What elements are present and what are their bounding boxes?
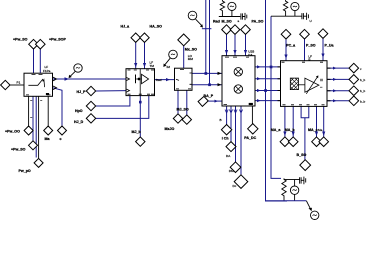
- port top B: [36, 39, 46, 49]
- port out Q: [349, 86, 359, 96]
- box1 corner mark: [46, 93, 49, 95]
- mixer1 circle with X: [234, 68, 242, 76]
- wire stem port LO to box3 top: [183, 46, 185, 68]
- port HJ_D: [86, 114, 95, 123]
- wire demod bottom pin1 to port MA_a: [284, 106, 286, 137]
- junction dot A: [264, 89, 267, 92]
- port D8 c: [58, 126, 67, 135]
- svg-text:b_b: b_b: [360, 89, 365, 93]
- demod connector line: [299, 84, 305, 86]
- svg-text:MxJO: MxJO: [165, 127, 175, 131]
- probe circle near filter out: [74, 64, 82, 72]
- wire LO vertical 1 from top: [205, 0, 207, 73]
- box1 filter LPF: [24, 73, 53, 96]
- wire demod bottom pin5 to port MA_c: [316, 106, 318, 137]
- svg-text:PC_a: PC_a: [286, 44, 296, 48]
- wire filter bottom pin4 down: [38, 96, 40, 158]
- svg-text:c: c: [60, 137, 62, 141]
- wire stem port HA_SO to amp top pin2: [144, 43, 146, 69]
- svg-text:B: B: [220, 118, 222, 122]
- junction dot LO2: [208, 83, 211, 86]
- wire filter out1 to amp in1: [53, 78, 127, 80]
- wire box3 to mixer box RF1: [192, 72, 222, 74]
- wire port HpO to amp bottom pin1: [96, 96, 130, 106]
- svg-text:+Pw_SO: +Pw_SO: [11, 148, 26, 152]
- amp internal vertical line: [139, 69, 141, 96]
- svg-text:b_b: b_b: [360, 78, 365, 82]
- pin number ticks below box1: [30, 100, 42, 117]
- box4 pin ticks: [224, 57, 250, 104]
- port D4: [24, 126, 33, 135]
- port MxJO: [173, 114, 182, 123]
- port MA_d: [319, 137, 329, 147]
- box3 pin ticks: [176, 70, 192, 89]
- resistor R1 (top-left): [220, 0, 224, 17]
- wire filter out2 down to port D8: [53, 88, 62, 126]
- probe arrow near filter out: [70, 71, 75, 76]
- demod right pin ticks: [320, 79, 323, 87]
- arrowhead on HA_SO stem: [143, 63, 146, 68]
- box2 pin ticks: [128, 70, 155, 94]
- svg-text:M_SO: M_SO: [222, 19, 232, 23]
- filter curve inside box1: [28, 79, 44, 87]
- arrow on out1 wire: [65, 77, 70, 80]
- port B_SO: [300, 160, 311, 171]
- wire box3 bottom pin2 to port MJ_SO: [186, 90, 188, 115]
- ground G1: [242, 13, 246, 20]
- port top A: [29, 39, 39, 49]
- wire P1 to filter: [10, 84, 24, 86]
- wire mixer box to demod row3: [255, 90, 281, 92]
- wire demod bottom pin6 to port: [323, 106, 325, 137]
- wire stem port PC to demod top pin1: [285, 39, 287, 61]
- wire filter bottom pin3 stub: [35, 96, 37, 157]
- svg-text:F1Pa: F1Pa: [43, 69, 51, 73]
- wire demod out4 to port: [327, 100, 349, 102]
- arrowhead amp out: [166, 78, 170, 81]
- svg-text:MM: MM: [188, 57, 194, 61]
- port D5: [29, 141, 38, 150]
- wire stem top port B to filter top pin2: [39, 49, 41, 73]
- ground G3: [301, 177, 306, 185]
- box2 left pin marks: [127, 78, 130, 93]
- port PA_DC: [248, 124, 258, 134]
- svg-text:P_SO: P_SO: [306, 44, 316, 48]
- port P_Ua: [318, 29, 328, 39]
- bottom-right bias: resistor R3: [282, 178, 286, 200]
- port D7 Ma: [44, 126, 53, 135]
- svg-text:Dc: Dc: [233, 184, 237, 188]
- port MA_b: [288, 137, 298, 147]
- box1 out pin arrows: [53, 77, 57, 81]
- wire U-bracket down to port B_SO: [304, 118, 306, 161]
- svg-text:+Pw_SO: +Pw_SO: [13, 38, 28, 42]
- wire box3 to mixer box RF2: [192, 84, 222, 86]
- svg-text:DM: DM: [229, 169, 234, 173]
- wire stem port D21 to mixer box top: [245, 34, 247, 55]
- svg-text:P1: P1: [17, 81, 21, 85]
- wire amp bottom pin2 down to port MJ_b: [139, 96, 141, 137]
- source S3 circle: [290, 186, 298, 194]
- svg-text:HA_SO: HA_SO: [150, 24, 163, 28]
- capacitor C2 plates: [302, 13, 304, 19]
- port D19: [222, 25, 232, 35]
- wire demod out3 to port: [327, 90, 349, 92]
- arrowhead RF1: [218, 72, 222, 75]
- port out Ibar: [349, 75, 359, 85]
- svg-text:HJ_P: HJ_P: [77, 90, 87, 94]
- wire mixer box to demod row4: [255, 100, 281, 102]
- port D25: [234, 175, 248, 189]
- svg-text:HJ_a: HJ_a: [121, 24, 131, 28]
- svg-text:PA_DC: PA_DC: [244, 136, 256, 140]
- wire demod out1 to port: [327, 67, 349, 69]
- junction dot LO1: [205, 72, 208, 75]
- svg-text:Rad: Rad: [156, 78, 162, 82]
- svg-text:TM: TM: [150, 64, 155, 68]
- svg-text:U: U: [310, 19, 312, 23]
- junction dot B: [270, 66, 273, 69]
- demod gain arrow: [306, 76, 318, 94]
- svg-text:B_SO: B_SO: [297, 153, 307, 157]
- svg-text:a: a: [238, 19, 240, 23]
- wire filter bottom pin5 down: [47, 96, 49, 126]
- wire port HJ_P to amp in2: [96, 90, 126, 92]
- top-left bias: node wire: [219, 16, 241, 18]
- port P_SO: [300, 29, 310, 39]
- amp input bar and dot: [135, 75, 137, 84]
- mixer2 circle with X: [234, 85, 242, 93]
- amp triangle: [142, 74, 149, 83]
- port BA_P: [198, 96, 208, 106]
- arrowhead RF2: [218, 83, 222, 86]
- box5 right stubs: [327, 68, 331, 101]
- box2 amp: [126, 69, 155, 96]
- top-right bias: node wire: [271, 15, 302, 17]
- demod amp triangle: [305, 78, 319, 92]
- port D20: [230, 25, 240, 35]
- wire stem top port A to filter top pin1: [33, 49, 35, 73]
- wire filter bottom pin2 down: [32, 96, 34, 140]
- wire demod out2 to port: [327, 78, 349, 80]
- wire LO2 vertical B from top node to resistor: [271, 16, 281, 178]
- bottom node wire: [266, 200, 307, 202]
- source S1 circle (top-left): [228, 2, 236, 10]
- svg-text:MA_a: MA_a: [271, 128, 282, 132]
- box4 corner mark: [249, 103, 253, 105]
- box5 demod: [281, 61, 328, 107]
- wire probe tap horizontal: [202, 28, 212, 30]
- port D23: [226, 142, 236, 152]
- arrowhead on HJ_a stem: [134, 63, 137, 68]
- probe circle near LO wires: [188, 11, 197, 20]
- bottom-right node to cap: [284, 179, 300, 181]
- capacitor C3 plates: [300, 177, 302, 183]
- wire mixer box bottom pin4 down: [240, 106, 242, 177]
- S3 leads: [294, 180, 296, 201]
- svg-text:Pw_pO: Pw_pO: [19, 169, 31, 173]
- wire box3 bottom pin1 to port MxJO: [177, 90, 179, 114]
- wire LO vertical 2 from top: [209, 0, 211, 85]
- port MA_c: [312, 137, 322, 147]
- wire mixer box bottom pin1 to port I: [226, 106, 228, 125]
- wire S1 lead: [231, 11, 233, 17]
- svg-text:BA_P: BA_P: [204, 94, 214, 98]
- svg-text:Ma: Ma: [318, 128, 323, 132]
- wire stem port P_SO to demod top pin2: [304, 39, 306, 61]
- port D21: [241, 25, 251, 35]
- svg-text:Rad: Rad: [213, 19, 220, 23]
- probe arrow near amp out: [165, 58, 171, 65]
- port out Qbar: [349, 96, 359, 106]
- port HpO: [86, 101, 95, 110]
- source S2 circle (top-right): [291, 2, 299, 10]
- svg-text:PA_SO: PA_SO: [252, 19, 264, 23]
- wire filter bottom pin1 down: [28, 96, 30, 126]
- wire stem port HJ_a to amp top pin1: [135, 43, 137, 69]
- wire demod bottom U-bracket pins: [301, 106, 309, 117]
- port I Ch: [221, 125, 231, 135]
- svg-text:MJ_SO: MJ_SO: [177, 108, 189, 112]
- probe circle near amp out: [169, 50, 178, 59]
- wire mixer box bottom pin5 (black) to port PA_DC: [251, 106, 253, 124]
- demod hatched block: [290, 78, 298, 90]
- capacitor C1 plates: [241, 13, 243, 19]
- box4 dual mixer: [222, 56, 255, 106]
- wire port BA_P to mixer box: [208, 100, 222, 102]
- svg-text:MJ_b: MJ_b: [132, 130, 142, 134]
- svg-text:HpO: HpO: [75, 109, 83, 113]
- ground G2: [303, 13, 308, 20]
- wire amp out to box3: [155, 79, 175, 81]
- wire demod bottom pin2 to port MA_b: [292, 106, 294, 137]
- svg-text:P_Ua: P_Ua: [325, 43, 335, 47]
- box5 pin ticks: [282, 62, 325, 105]
- wire mixer box to demod row1: [255, 66, 281, 68]
- svg-text:MA_c: MA_c: [308, 128, 318, 132]
- wire mixer box bottom pin3 down: [235, 106, 237, 163]
- arrow mark on BA_P wire: [215, 100, 219, 103]
- probe arrow to LO wire: [196, 19, 202, 26]
- port LO: [178, 34, 190, 46]
- wire port HJ_D to amp bottom pin3: [96, 96, 149, 119]
- port HA_SO: [140, 33, 149, 42]
- svg-text:MA_b: MA_b: [285, 128, 296, 132]
- svg-text:b_b: b_b: [360, 100, 365, 104]
- probe circle bottom-right: [311, 211, 319, 219]
- svg-text:HJ_D: HJ_D: [74, 120, 84, 124]
- svg-text:+Pw_OO: +Pw_OO: [5, 129, 20, 133]
- port P1: [1, 80, 10, 89]
- port MJ_b: [136, 137, 145, 146]
- resistor R2 (top-right): [283, 0, 287, 16]
- port HJ_a: [131, 33, 140, 42]
- svg-text:IM: IM: [167, 65, 171, 69]
- box1 pin ticks: [26, 75, 51, 95]
- port out I: [349, 63, 359, 73]
- port PC: [281, 29, 291, 39]
- svg-text:+Pw_SOP: +Pw_SOP: [49, 38, 66, 42]
- diagonal to probe circle: [306, 201, 311, 210]
- junction dot on MJ_b stem: [139, 101, 142, 104]
- svg-text:Mx_SO: Mx_SO: [185, 47, 197, 51]
- wire stem port D20 to mixer box top: [234, 34, 236, 55]
- svg-text:I Ch: I Ch: [222, 137, 229, 141]
- wire LO2 vertical A from top to bottom bias: [266, 0, 288, 201]
- wire mixer box to demod row2: [255, 78, 281, 80]
- port MA_a: [280, 137, 290, 147]
- box3: [175, 68, 193, 90]
- wire stem port D19 to mixer box top: [226, 34, 228, 55]
- box5 left stubs: [278, 67, 281, 101]
- wire stem port P_Ua to demod top pin2: [322, 38, 324, 60]
- wire S2 lead: [294, 11, 296, 17]
- svg-text:B: B: [308, 57, 310, 61]
- port D6: [34, 158, 43, 167]
- port D24: [230, 162, 241, 173]
- wire mixer box bottom pin2 down: [230, 106, 232, 142]
- port HJ_P: [86, 86, 95, 95]
- port MJ_SO: [182, 115, 191, 124]
